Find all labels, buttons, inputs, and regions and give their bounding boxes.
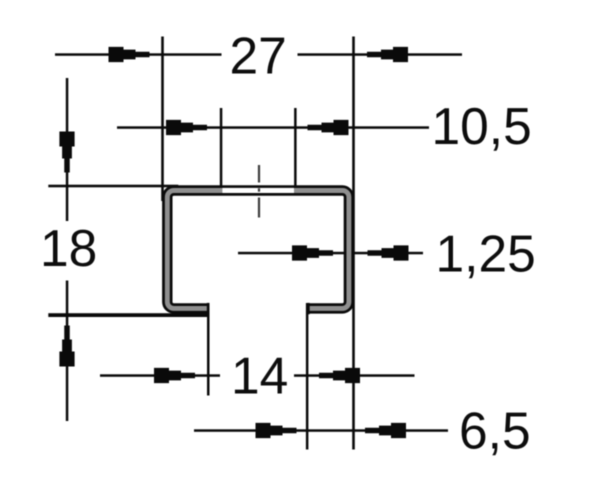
dashed centerline top segment xyxy=(258,165,260,183)
svg-text:18: 18 xyxy=(40,219,97,277)
extension line right of 27 / outer right edge at x=353.5 xyxy=(352,37,355,450)
arrow 6,5 left xyxy=(256,423,297,438)
arrow 1,25 right xyxy=(368,245,409,260)
arrow 6,5 right xyxy=(365,423,406,438)
dimension line 1,25 xyxy=(238,252,423,255)
arrow 1,25 left xyxy=(292,245,333,260)
extension line left of 27 at x=162.5 xyxy=(161,37,164,202)
arrow 10,5 right xyxy=(308,120,349,135)
arrow 10,5 left xyxy=(166,120,207,135)
dashed centerline middle dash xyxy=(258,188,260,191)
extension line right of 10,5 at x=295.3 xyxy=(294,108,297,189)
extension line left of 14 at x=208.2 xyxy=(207,303,210,396)
right flange end face xyxy=(307,303,310,314)
extension line left of 10,5 at x=221 xyxy=(220,108,223,189)
top wall middle white slot zone xyxy=(222,188,294,193)
extension line right of 14 / left edge of 6,5 at x=307 xyxy=(306,303,309,450)
svg-text:1,25: 1,25 xyxy=(436,225,536,283)
dimension line 18 (vertical, lower segment) xyxy=(66,281,69,422)
dimension line 10,5 xyxy=(117,126,429,129)
C-profile wall outline (black) xyxy=(167,190,349,308)
arrow 14 left xyxy=(154,368,195,383)
arrow 27 left xyxy=(109,47,150,62)
dashed centerline bottom segment xyxy=(258,198,260,218)
svg-text:6,5: 6,5 xyxy=(459,402,531,460)
dimension line 14 (left segment) xyxy=(100,374,220,377)
dimension line 27 (left segment) xyxy=(55,53,222,56)
left flange end face xyxy=(207,303,210,314)
extension line bottom of 18 at y=315.5 xyxy=(48,313,209,317)
arrow 27 right xyxy=(367,47,408,62)
C-profile wall fill (gray) xyxy=(167,190,349,308)
svg-text:27: 27 xyxy=(230,26,287,84)
arrow 18 top (pointing down) xyxy=(59,132,74,173)
svg-text:10,5: 10,5 xyxy=(432,97,532,155)
svg-text:14: 14 xyxy=(231,346,288,404)
extension line top of 18 at y=186 xyxy=(48,185,178,188)
dimension line 27 (right segment) xyxy=(298,53,463,56)
arrow 14 right xyxy=(319,368,360,383)
arrow 18 bottom (pointing up) xyxy=(59,326,74,367)
dimension line 18 (vertical, upper segment) xyxy=(66,78,69,221)
dimension line 14 (right segment) xyxy=(294,374,415,377)
dimension line 6,5 xyxy=(194,429,448,432)
